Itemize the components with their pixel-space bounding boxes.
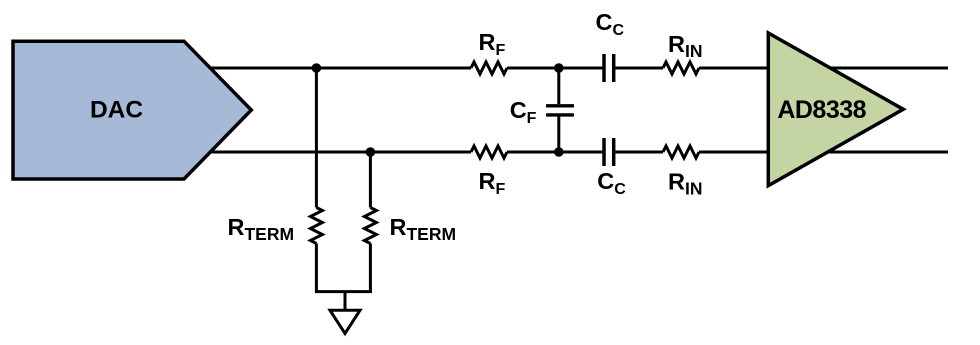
wire top: DAC to RF (208, 67, 471, 70)
svg-text:AD8338: AD8338 (777, 96, 866, 124)
svg-text:DAC: DAC (90, 97, 143, 124)
node dot bottom-left (366, 147, 376, 157)
resistor RF bottom zigzag (471, 146, 507, 158)
wire bottom: RF to CC (507, 151, 603, 154)
resistor RTERM right zigzag (364, 208, 376, 244)
capacitor CC top plates (604, 54, 614, 166)
resistor RTERM left zigzag (310, 208, 322, 244)
resistor RIN bottom zigzag (663, 146, 699, 158)
node dot top-right (554, 63, 564, 73)
ground symbol (330, 310, 360, 333)
wire bottom output (790, 151, 948, 154)
wire bottom: RIN to amp (699, 151, 768, 154)
wire top: RIN to amp (699, 67, 768, 70)
vertical wire left lower (315, 244, 318, 292)
wire top output (790, 67, 948, 70)
resistor RIN top zigzag (663, 62, 699, 74)
wire bottom: DAC to RF (208, 151, 471, 154)
wire top: CC to RIN (615, 67, 663, 70)
op-amp U1 AD8338 triangle (768, 33, 903, 186)
capacitor CF plates (546, 106, 574, 115)
ground stub (344, 292, 347, 310)
wire bottom: CC to RIN (615, 151, 663, 154)
DAC block (13, 41, 251, 179)
capacitor CF vertical leads (557, 68, 560, 152)
node dot top-left (312, 63, 322, 73)
wire top: RF to CC (507, 67, 603, 70)
capacitor CC bottom plates (604, 138, 614, 166)
vertical wire left (from top node down) (315, 68, 318, 208)
resistor RF top zigzag (471, 62, 507, 74)
node dot bottom-right (554, 147, 564, 157)
ground bus horizontal (315, 290, 372, 293)
vertical wire right lower (369, 244, 372, 292)
vertical wire right (from bottom node down) (369, 152, 372, 208)
